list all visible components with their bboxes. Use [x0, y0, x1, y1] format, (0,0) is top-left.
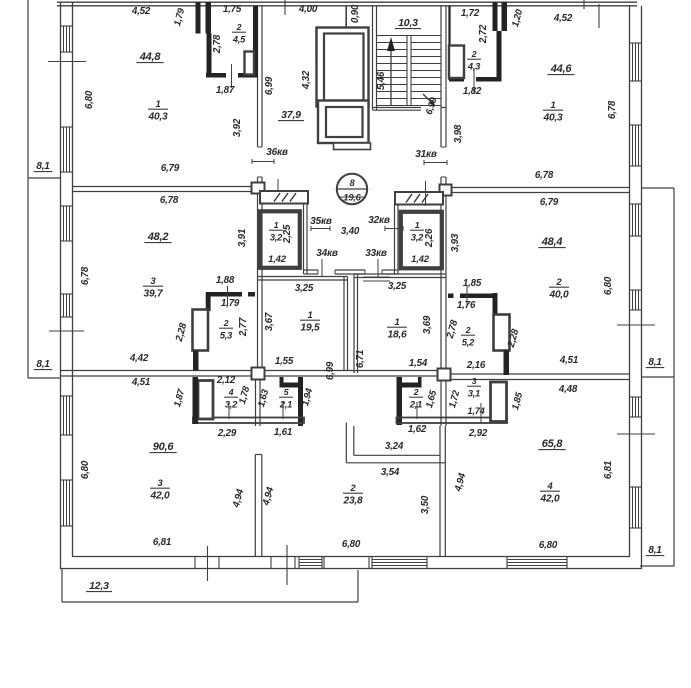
svg-text:4,5: 4,5 [232, 35, 246, 45]
svg-text:40,0: 40,0 [548, 290, 569, 301]
svg-text:6,81: 6,81 [153, 537, 171, 548]
svg-text:4,51: 4,51 [559, 355, 578, 366]
svg-text:2,16: 2,16 [466, 360, 486, 371]
svg-text:2,92: 2,92 [468, 428, 488, 439]
svg-text:42,0: 42,0 [149, 491, 170, 502]
svg-text:6,79: 6,79 [161, 163, 180, 174]
svg-text:6,80: 6,80 [342, 539, 361, 550]
svg-text:1,55: 1,55 [275, 356, 294, 367]
svg-text:3,67: 3,67 [264, 312, 275, 331]
svg-text:2: 2 [556, 277, 563, 287]
svg-text:90,6: 90,6 [153, 441, 175, 453]
svg-text:6,99: 6,99 [264, 76, 275, 95]
svg-text:2,1: 2,1 [409, 400, 422, 410]
svg-text:1: 1 [395, 317, 400, 327]
svg-text:6,79: 6,79 [540, 197, 559, 208]
svg-text:6,78: 6,78 [535, 170, 554, 181]
svg-text:48,2: 48,2 [147, 231, 169, 243]
svg-text:2: 2 [223, 318, 229, 328]
svg-text:36кв: 36кв [266, 147, 288, 158]
svg-text:3,2: 3,2 [411, 233, 424, 243]
svg-text:42,0: 42,0 [539, 494, 560, 505]
svg-text:2,12: 2,12 [216, 375, 236, 386]
svg-text:10,3: 10,3 [398, 17, 418, 29]
svg-text:2: 2 [413, 387, 419, 397]
svg-text:5,2: 5,2 [462, 338, 475, 348]
svg-text:40,3: 40,3 [542, 113, 563, 124]
svg-text:4,52: 4,52 [131, 6, 151, 17]
svg-text:3: 3 [472, 376, 477, 386]
svg-text:1: 1 [551, 100, 556, 110]
svg-text:4,3: 4,3 [467, 62, 481, 72]
svg-text:3,91: 3,91 [237, 229, 248, 247]
svg-text:2,26: 2,26 [424, 228, 435, 248]
svg-text:2: 2 [350, 483, 357, 493]
svg-text:1: 1 [156, 99, 161, 109]
svg-text:8: 8 [350, 178, 355, 188]
svg-text:6,80: 6,80 [80, 460, 91, 479]
svg-text:1: 1 [308, 310, 313, 320]
svg-text:4,00: 4,00 [298, 4, 318, 15]
svg-text:2,25: 2,25 [282, 224, 293, 244]
svg-text:1,82: 1,82 [463, 86, 482, 97]
svg-text:37,9: 37,9 [281, 109, 301, 121]
svg-text:1,88: 1,88 [216, 275, 235, 286]
svg-text:4,32: 4,32 [301, 70, 312, 90]
svg-text:6,80: 6,80 [539, 540, 558, 551]
svg-text:44,6: 44,6 [550, 63, 573, 75]
svg-text:2,78: 2,78 [212, 34, 223, 54]
svg-text:5,46: 5,46 [376, 71, 387, 90]
svg-text:1: 1 [415, 220, 420, 230]
svg-text:33кв: 33кв [365, 248, 387, 259]
svg-text:40,3: 40,3 [147, 112, 168, 123]
svg-text:1,72: 1,72 [461, 8, 480, 19]
svg-text:1,87: 1,87 [216, 85, 235, 96]
svg-text:6,81: 6,81 [603, 461, 614, 479]
svg-text:12,3: 12,3 [89, 580, 109, 592]
svg-text:2,29: 2,29 [217, 428, 237, 439]
svg-text:39,7: 39,7 [143, 289, 164, 300]
svg-text:1,62: 1,62 [408, 424, 427, 435]
svg-text:4: 4 [228, 387, 234, 397]
svg-text:5,3: 5,3 [220, 331, 233, 341]
svg-text:3,69: 3,69 [422, 315, 433, 334]
svg-text:4,48: 4,48 [558, 384, 578, 395]
svg-text:4,51: 4,51 [131, 377, 150, 388]
svg-text:3,98: 3,98 [453, 124, 464, 143]
svg-text:1: 1 [274, 220, 279, 230]
svg-text:6,99: 6,99 [325, 361, 336, 380]
svg-text:6,78: 6,78 [607, 100, 618, 119]
svg-text:1,76: 1,76 [457, 300, 476, 311]
svg-text:2: 2 [471, 49, 477, 59]
svg-text:34кв: 34кв [316, 248, 338, 259]
svg-text:6,71: 6,71 [355, 350, 366, 368]
svg-text:3,93: 3,93 [450, 233, 461, 252]
svg-text:18,6: 18,6 [387, 330, 407, 341]
svg-text:31кв: 31кв [415, 149, 437, 160]
svg-text:1,75: 1,75 [223, 4, 242, 15]
svg-text:3,2: 3,2 [225, 400, 238, 410]
svg-text:1,42: 1,42 [411, 254, 430, 265]
svg-text:32кв: 32кв [368, 215, 390, 226]
svg-text:1,61: 1,61 [274, 427, 292, 438]
svg-text:4,52: 4,52 [553, 13, 573, 24]
svg-text:2,77: 2,77 [238, 317, 249, 337]
svg-text:44,8: 44,8 [139, 51, 162, 63]
svg-text:3,1: 3,1 [468, 389, 480, 399]
svg-text:3,54: 3,54 [381, 467, 400, 478]
svg-text:6,78: 6,78 [160, 195, 179, 206]
svg-text:1,85: 1,85 [463, 278, 482, 289]
svg-text:48,4: 48,4 [541, 236, 563, 248]
svg-text:2,1: 2,1 [279, 400, 292, 410]
svg-text:1,79: 1,79 [221, 298, 240, 309]
svg-text:3,50: 3,50 [420, 495, 431, 514]
svg-text:23,8: 23,8 [342, 496, 363, 507]
svg-text:1,74: 1,74 [467, 406, 485, 416]
svg-text:0,90: 0,90 [350, 4, 361, 23]
svg-text:19,5: 19,5 [300, 323, 320, 334]
svg-text:1,54: 1,54 [409, 358, 428, 369]
svg-text:4: 4 [547, 481, 554, 491]
svg-text:2,72: 2,72 [478, 24, 489, 44]
svg-text:3,40: 3,40 [341, 226, 360, 237]
svg-text:8,1: 8,1 [36, 359, 50, 370]
svg-text:3,25: 3,25 [295, 283, 314, 294]
svg-text:3,92: 3,92 [232, 118, 243, 137]
svg-text:6,78: 6,78 [80, 266, 91, 285]
svg-text:65,8: 65,8 [542, 438, 564, 450]
svg-text:5: 5 [284, 387, 289, 397]
svg-text:2: 2 [465, 325, 471, 335]
svg-text:8,1: 8,1 [648, 357, 662, 368]
svg-text:1,42: 1,42 [268, 254, 287, 265]
svg-text:8,1: 8,1 [648, 545, 662, 556]
svg-text:3,24: 3,24 [385, 441, 404, 452]
svg-text:3,25: 3,25 [388, 281, 407, 292]
svg-text:6,80: 6,80 [603, 276, 614, 295]
svg-text:2: 2 [236, 22, 242, 32]
svg-text:8,1: 8,1 [36, 161, 50, 172]
svg-text:4,42: 4,42 [129, 353, 149, 364]
svg-text:35кв: 35кв [310, 216, 332, 227]
svg-text:6,80: 6,80 [84, 90, 95, 109]
